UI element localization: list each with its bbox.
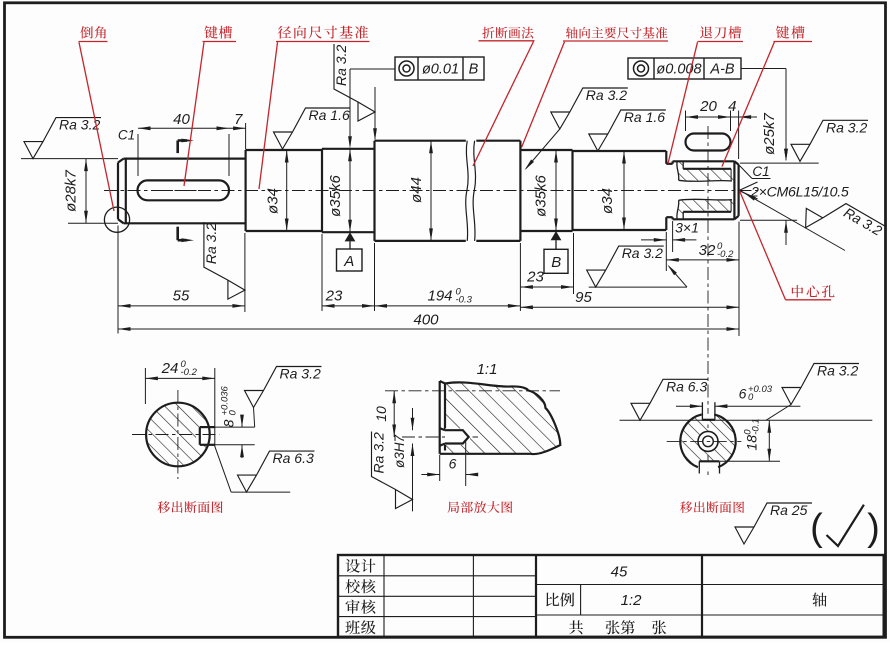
svg-text:A-B: A-B — [709, 62, 735, 78]
svg-text:Ra 6.3: Ra 6.3 — [666, 378, 707, 394]
svg-text:Ra 3.2: Ra 3.2 — [826, 119, 867, 135]
svg-text:24: 24 — [161, 360, 179, 377]
svg-text:32: 32 — [699, 242, 716, 259]
svg-text:23: 23 — [325, 288, 343, 305]
svg-text:400: 400 — [413, 312, 439, 329]
svg-text:ø35k6: ø35k6 — [533, 175, 550, 217]
svg-text:0: 0 — [227, 410, 238, 416]
svg-text:55: 55 — [173, 288, 190, 305]
svg-text:C1: C1 — [752, 164, 769, 179]
svg-text:Ra 3.2: Ra 3.2 — [280, 366, 321, 382]
svg-text:Ra 3.2: Ra 3.2 — [586, 87, 627, 103]
svg-text:(: ( — [810, 507, 823, 549]
svg-text:ø25k7: ø25k7 — [761, 113, 778, 155]
svg-text:-0.2: -0.2 — [717, 249, 734, 260]
svg-text:ø44: ø44 — [408, 177, 425, 203]
svg-text:10: 10 — [373, 406, 389, 422]
svg-text:3×1: 3×1 — [675, 219, 699, 235]
svg-text:Ra 3.2: Ra 3.2 — [59, 117, 100, 133]
svg-text:-0.3: -0.3 — [456, 294, 473, 305]
svg-text:6: 6 — [739, 385, 747, 401]
svg-text:A: A — [343, 253, 354, 270]
svg-text:1:2: 1:2 — [621, 592, 643, 609]
svg-text:ø0.01: ø0.01 — [422, 62, 459, 78]
svg-text:Ra 3.2: Ra 3.2 — [203, 223, 219, 264]
svg-text:23: 23 — [526, 269, 544, 286]
svg-text:Ra 3.2: Ra 3.2 — [371, 432, 387, 473]
svg-text:95: 95 — [575, 289, 592, 306]
svg-text:8: 8 — [221, 419, 237, 427]
svg-text:ø35k6: ø35k6 — [327, 175, 344, 217]
svg-text:-0.1: -0.1 — [750, 418, 761, 434]
svg-text:B: B — [469, 62, 479, 78]
svg-text:Ra 3.2: Ra 3.2 — [622, 245, 663, 261]
svg-text:C1: C1 — [118, 128, 135, 143]
svg-text:2×CM6L15/10.5: 2×CM6L15/10.5 — [750, 184, 849, 200]
svg-text:Ra 6.3: Ra 6.3 — [273, 450, 314, 466]
svg-text:Ra 3.2: Ra 3.2 — [817, 363, 858, 379]
svg-text:0: 0 — [748, 392, 754, 403]
svg-text:40: 40 — [173, 111, 190, 128]
svg-text:B: B — [551, 254, 561, 271]
svg-text:Ra 3.2: Ra 3.2 — [333, 45, 349, 86]
svg-text:18: 18 — [744, 435, 760, 451]
svg-text:ø34: ø34 — [265, 188, 282, 214]
svg-text:20: 20 — [699, 98, 717, 115]
svg-text:194: 194 — [427, 288, 452, 305]
svg-text:1:1: 1:1 — [477, 361, 498, 378]
svg-text:-0.2: -0.2 — [181, 367, 198, 378]
svg-text:ø28k7: ø28k7 — [63, 170, 80, 212]
svg-text:): ) — [867, 507, 880, 549]
svg-text:6: 6 — [449, 456, 457, 472]
svg-text:Ra 1.6: Ra 1.6 — [624, 109, 665, 125]
svg-text:7: 7 — [234, 111, 243, 128]
svg-text:Ra 25: Ra 25 — [770, 502, 808, 518]
svg-text:ø0.008: ø0.008 — [656, 62, 701, 78]
svg-text:4: 4 — [728, 98, 736, 115]
svg-text:Ra 1.6: Ra 1.6 — [309, 107, 350, 123]
svg-text:45: 45 — [611, 563, 628, 580]
svg-text:ø3H7: ø3H7 — [392, 435, 407, 469]
svg-text:ø34: ø34 — [599, 188, 616, 214]
